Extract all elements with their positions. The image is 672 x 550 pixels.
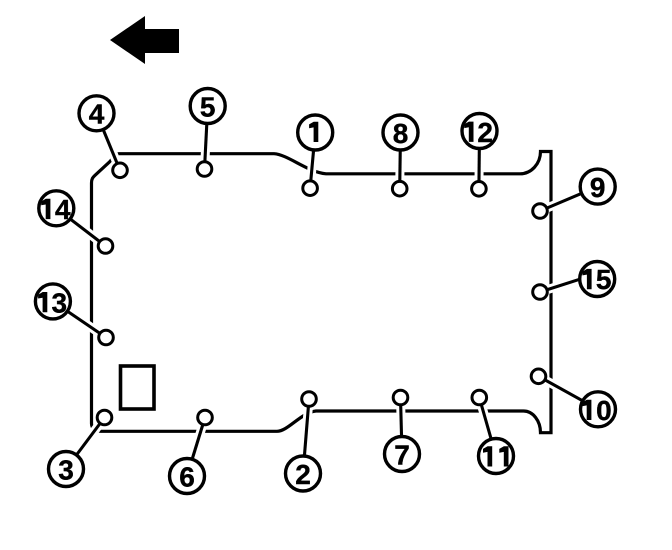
svg-text:3: 3 bbox=[58, 454, 74, 485]
svg-text:4: 4 bbox=[89, 99, 105, 130]
svg-text:5: 5 bbox=[596, 264, 612, 295]
svg-text:9: 9 bbox=[590, 172, 606, 203]
svg-text:0: 0 bbox=[596, 395, 612, 426]
svg-text:3: 3 bbox=[52, 287, 68, 318]
svg-text:6: 6 bbox=[179, 461, 195, 492]
svg-text:8: 8 bbox=[393, 118, 409, 149]
svg-text:2: 2 bbox=[477, 117, 493, 148]
svg-text:7: 7 bbox=[394, 439, 410, 470]
svg-text:2: 2 bbox=[295, 459, 311, 490]
svg-text:4: 4 bbox=[55, 194, 71, 225]
svg-text:5: 5 bbox=[200, 91, 216, 122]
